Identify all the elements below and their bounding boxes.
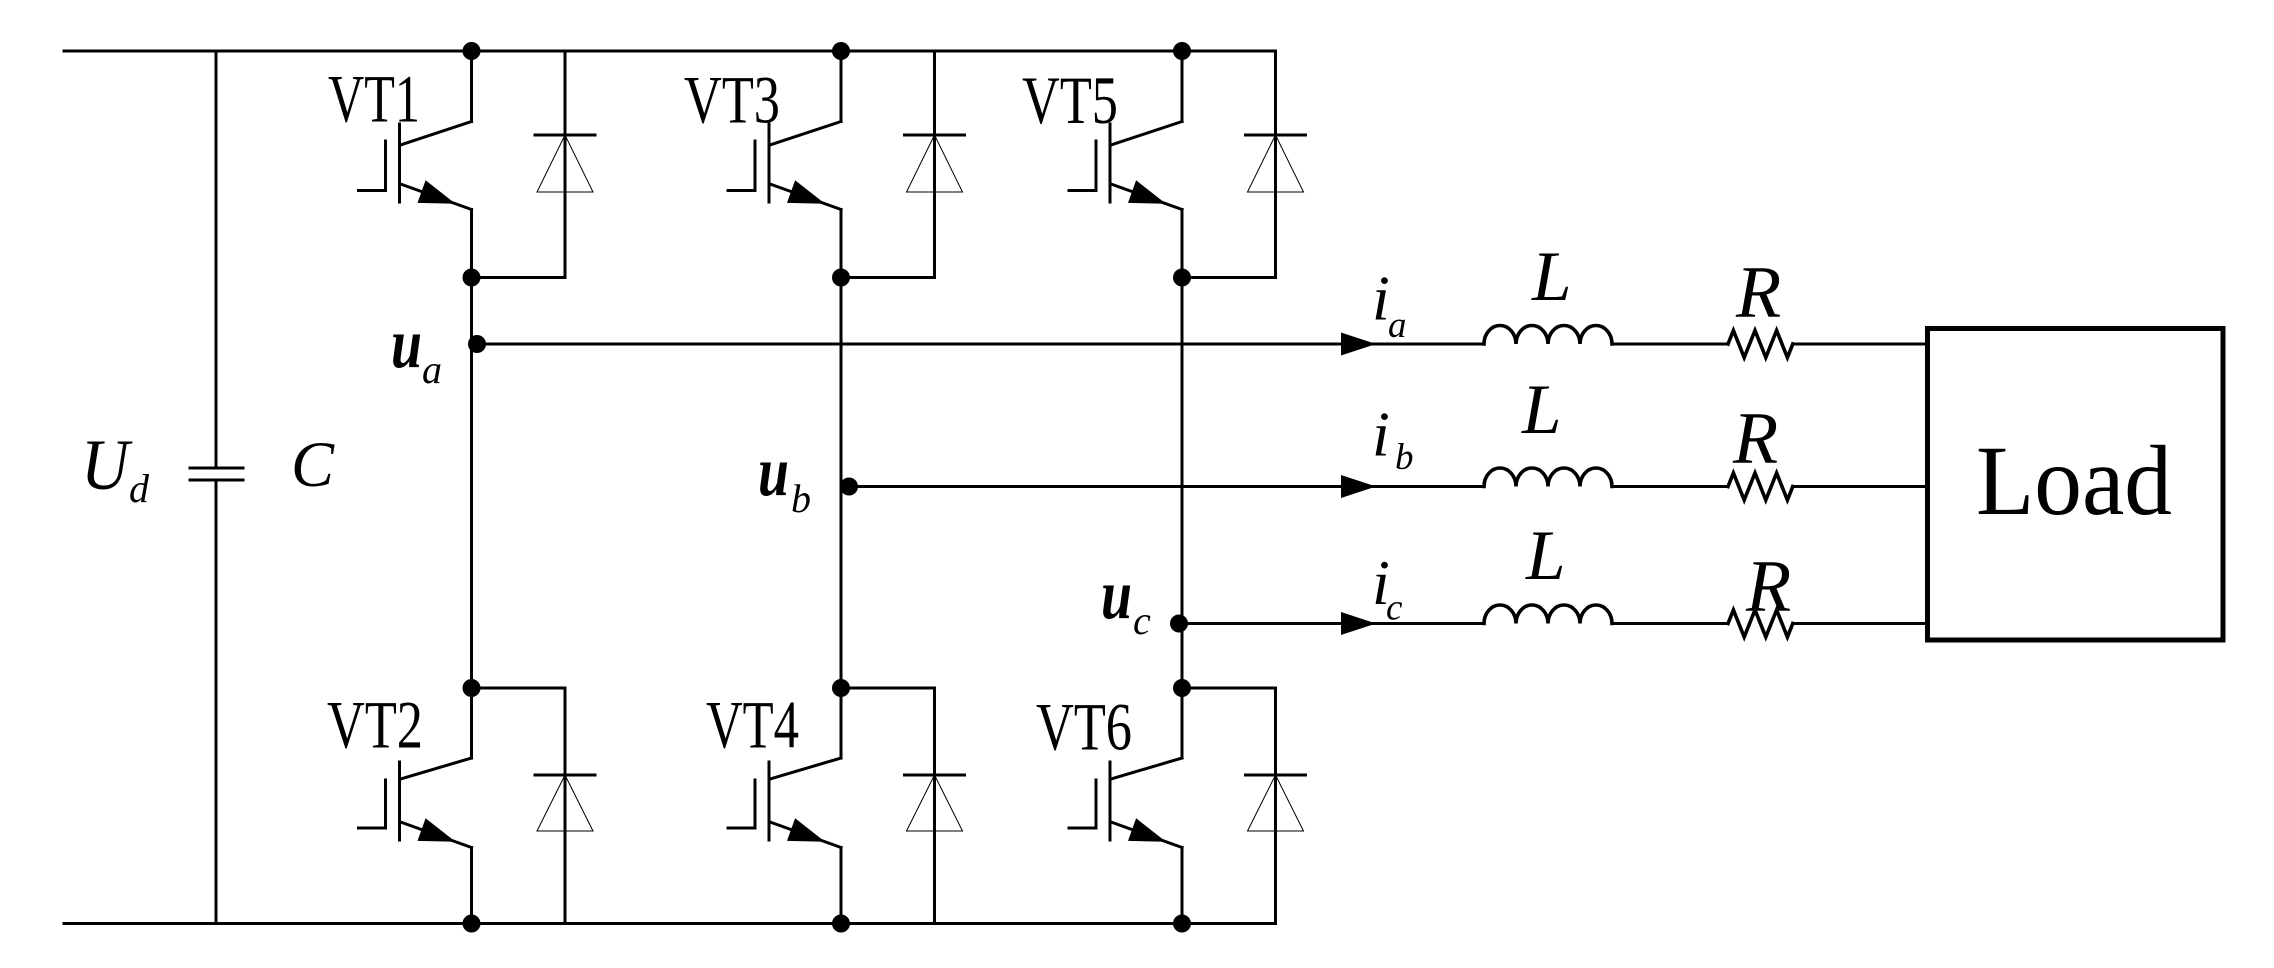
transistor VT1 gate bar: [384, 141, 387, 191]
transistor VT2 emitter wire: [470, 848, 473, 924]
svg-text:d: d: [129, 466, 150, 511]
svg-text:R: R: [1732, 398, 1778, 480]
transistor VT3 gate bar: [754, 141, 757, 191]
transistor VT6 emitter wire: [1181, 848, 1184, 924]
transistor VT5 (IGBT, upper) collector wire: [1181, 51, 1184, 122]
transistor VT1 gate lead: [359, 189, 386, 192]
wire bottom DC bus: [64, 922, 1276, 925]
wire phase c line (resistor to load): [1793, 622, 1928, 625]
current arrow i_a: [1341, 333, 1376, 356]
svg-text:VT4: VT4: [706, 687, 799, 763]
diode VD2 cathode bar: [535, 774, 595, 777]
transistor VT6 emitter arrow: [1128, 818, 1166, 842]
resistor R (b phase) zigzag: [1728, 473, 1793, 500]
wire emitter-diode jog upper a: [472, 276, 566, 279]
diode VD1 vertical wire: [564, 51, 567, 278]
transistor VT6 collector lead: [1111, 758, 1182, 779]
wire top DC bus: [64, 50, 1276, 53]
transistor VT4 body bar: [768, 762, 771, 840]
node u_c: [1170, 615, 1188, 633]
node top bus / phase b leg: [832, 42, 850, 60]
node collector junction lower a: [463, 679, 481, 697]
wire emitter-diode jog upper c: [1182, 276, 1276, 279]
transistor VT3 emitter arrow: [787, 180, 825, 204]
transistor VT5 gate bar: [1095, 141, 1098, 191]
svg-text:c: c: [1133, 598, 1151, 643]
node u_a: [468, 335, 486, 353]
svg-text:i: i: [1372, 399, 1390, 470]
node u_b: [840, 478, 858, 496]
svg-text:VT1: VT1: [328, 61, 420, 137]
diode VD6 vertical wire: [1274, 688, 1277, 924]
wire collector-diode jog lower b: [841, 687, 935, 690]
diode VD6 cathode bar: [1246, 774, 1306, 777]
wire phase a leg middle: [470, 278, 473, 689]
transistor VT2 body bar: [398, 762, 401, 840]
svg-text:a: a: [422, 347, 442, 392]
transistor VT4 emitter lead: [770, 822, 841, 848]
transistor VT4 emitter arrow: [787, 818, 825, 842]
transistor VT1 emitter lead: [401, 184, 472, 210]
transistor VT1 body bar: [398, 124, 401, 202]
node emitter junction upper a: [463, 269, 481, 287]
wire collector-diode jog lower c: [1182, 687, 1276, 690]
transistor VT3 gate lead: [728, 189, 755, 192]
transistor VT4 emitter wire: [840, 848, 843, 924]
node bottom bus / phase b leg: [832, 915, 850, 933]
diode VD1 triangle: [537, 135, 593, 192]
node emitter junction upper b: [832, 269, 850, 287]
transistor VT6 body bar: [1109, 762, 1112, 840]
wire phase b leg middle: [840, 278, 843, 689]
diode VD2 vertical wire: [564, 688, 567, 924]
transistor VT5 emitter arrow: [1128, 180, 1166, 204]
transistor VT3 emitter lead: [770, 184, 841, 210]
node emitter junction upper c: [1173, 269, 1191, 287]
svg-text:L: L: [1525, 517, 1566, 595]
diode VD6 triangle: [1248, 775, 1304, 831]
svg-text:R: R: [1745, 546, 1791, 628]
diode VD4 vertical wire: [933, 688, 936, 924]
transistor VT4 collector lead: [770, 758, 841, 779]
svg-text:VT3: VT3: [684, 62, 780, 138]
node top bus / phase a leg: [463, 42, 481, 60]
svg-text:L: L: [1521, 371, 1562, 449]
diode VD3 triangle: [907, 135, 963, 192]
transistor VT2 (IGBT, lower) collector wire: [470, 688, 473, 758]
transistor VT3 (IGBT, upper) collector wire: [840, 51, 843, 122]
diode VD4 cathode bar: [905, 774, 965, 777]
transistor VT2 gate lead: [359, 827, 386, 830]
transistor VT2 gate bar: [384, 780, 387, 828]
wire phase b line (inductor to resistor): [1612, 485, 1728, 488]
transistor VT5 emitter wire: [1181, 210, 1184, 278]
transistor VT1 collector lead: [401, 122, 472, 146]
transistor VT3 body bar: [768, 124, 771, 202]
wire DC source upper: [215, 51, 218, 468]
svg-text:b: b: [791, 476, 811, 521]
wire phase a output line (node to inductor): [472, 343, 1485, 346]
transistor VT6 gate lead: [1069, 827, 1096, 830]
svg-text:u: u: [1101, 556, 1132, 634]
transistor VT6 gate bar: [1095, 780, 1098, 828]
node bottom bus / phase c leg: [1173, 915, 1191, 933]
transistor VT5 gate lead: [1069, 189, 1096, 192]
svg-text:VT5: VT5: [1022, 62, 1118, 138]
wire phase b line (resistor to load): [1793, 485, 1928, 488]
svg-text:R: R: [1735, 252, 1781, 334]
diode VD1 cathode bar: [535, 134, 595, 137]
inductor L (a phase) winding: [1484, 326, 1612, 345]
svg-text:VT6: VT6: [1036, 689, 1132, 765]
svg-text:L: L: [1531, 238, 1572, 316]
transistor VT6 emitter lead: [1111, 822, 1182, 848]
transistor VT5 collector lead: [1111, 122, 1182, 146]
node collector junction lower b: [832, 679, 850, 697]
node bottom bus / phase a leg: [463, 915, 481, 933]
diode VD4 triangle: [907, 775, 963, 831]
wire phase a line (resistor to load): [1793, 343, 1928, 346]
svg-text:Load: Load: [1976, 425, 2172, 536]
capacitor C plates: [190, 467, 243, 470]
diode VD5 vertical wire: [1274, 51, 1277, 278]
wire phase a line (inductor to resistor): [1612, 343, 1728, 346]
node top bus / phase c leg: [1173, 42, 1191, 60]
svg-text:U: U: [81, 425, 133, 505]
transistor VT4 gate lead: [728, 827, 755, 830]
wire collector-diode jog lower a: [472, 687, 566, 690]
transistor VT5 emitter lead: [1111, 184, 1182, 210]
resistor R (a phase) zigzag: [1728, 331, 1793, 358]
wire emitter-diode jog upper b: [841, 276, 935, 279]
wire DC source lower: [215, 480, 218, 924]
svg-text:VT2: VT2: [327, 687, 423, 763]
transistor VT3 collector lead: [770, 122, 841, 146]
transistor VT1 emitter arrow: [418, 180, 456, 204]
diode VD3 cathode bar: [905, 134, 965, 137]
wire phase b output line (node to inductor): [841, 485, 1484, 488]
transistor VT3 emitter wire: [840, 210, 843, 278]
svg-text:u: u: [758, 433, 789, 511]
resistor R (c phase) zigzag: [1728, 610, 1793, 637]
svg-text:a: a: [1388, 305, 1407, 346]
diode VD5 triangle: [1248, 135, 1304, 192]
transistor VT5 body bar: [1109, 124, 1112, 202]
diode VD2 triangle: [537, 775, 593, 831]
wire phase c line (inductor to resistor): [1612, 622, 1728, 625]
diode VD5 cathode bar: [1246, 134, 1306, 137]
svg-text:u: u: [391, 305, 422, 383]
svg-text:b: b: [1395, 437, 1414, 478]
wire phase c leg middle: [1181, 278, 1184, 689]
transistor VT6 (IGBT, lower) collector wire: [1181, 688, 1184, 758]
current arrow i_c: [1341, 612, 1376, 635]
node collector junction lower c: [1173, 679, 1191, 697]
transistor VT4 (IGBT, lower) collector wire: [840, 688, 843, 758]
svg-text:C: C: [291, 429, 335, 501]
svg-text:c: c: [1386, 588, 1403, 629]
inductor L (c phase) winding: [1484, 605, 1612, 623]
transistor VT1 (IGBT, upper) collector wire: [470, 51, 473, 122]
transistor VT2 emitter lead: [401, 822, 472, 848]
transistor VT2 emitter arrow: [418, 818, 456, 842]
load box: [1928, 329, 2224, 641]
current arrow i_b: [1341, 475, 1376, 498]
inductor L (b phase) winding: [1484, 468, 1612, 486]
wire phase c output line (node to inductor): [1182, 622, 1484, 625]
transistor VT2 collector lead: [401, 758, 472, 779]
diode VD3 vertical wire: [933, 51, 936, 278]
transistor VT4 gate bar: [754, 780, 757, 828]
transistor VT1 emitter wire: [470, 210, 473, 278]
